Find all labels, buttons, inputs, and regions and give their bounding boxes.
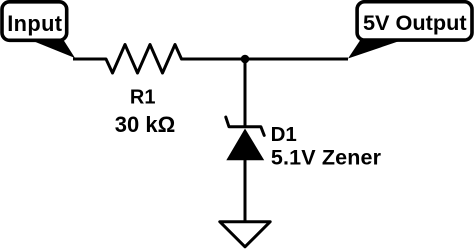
junction node dot [241, 55, 250, 64]
ground [220, 222, 270, 247]
svg-text:30 kΩ: 30 kΩ [115, 112, 175, 137]
wire junction to D1 cathode [244, 59, 247, 127]
wire input to R1 [73, 58, 106, 61]
wire D1 anode to ground [244, 160, 247, 221]
node Input callout box [2, 2, 75, 58]
node 5V Output callout box [348, 2, 472, 59]
resistor R1 [106, 45, 182, 74]
wire junction to output callout [245, 58, 348, 61]
svg-text:D1: D1 [271, 123, 297, 146]
svg-text:5V Output: 5V Output [363, 10, 467, 35]
svg-text:R1: R1 [130, 87, 156, 109]
wire R1 to junction [182, 58, 246, 61]
svg-text:5.1V Zener: 5.1V Zener [271, 145, 382, 169]
zener diode D1 cathode bar [226, 117, 264, 135]
svg-text:Input: Input [7, 11, 62, 36]
zener diode D1 anode triangle [226, 129, 264, 161]
